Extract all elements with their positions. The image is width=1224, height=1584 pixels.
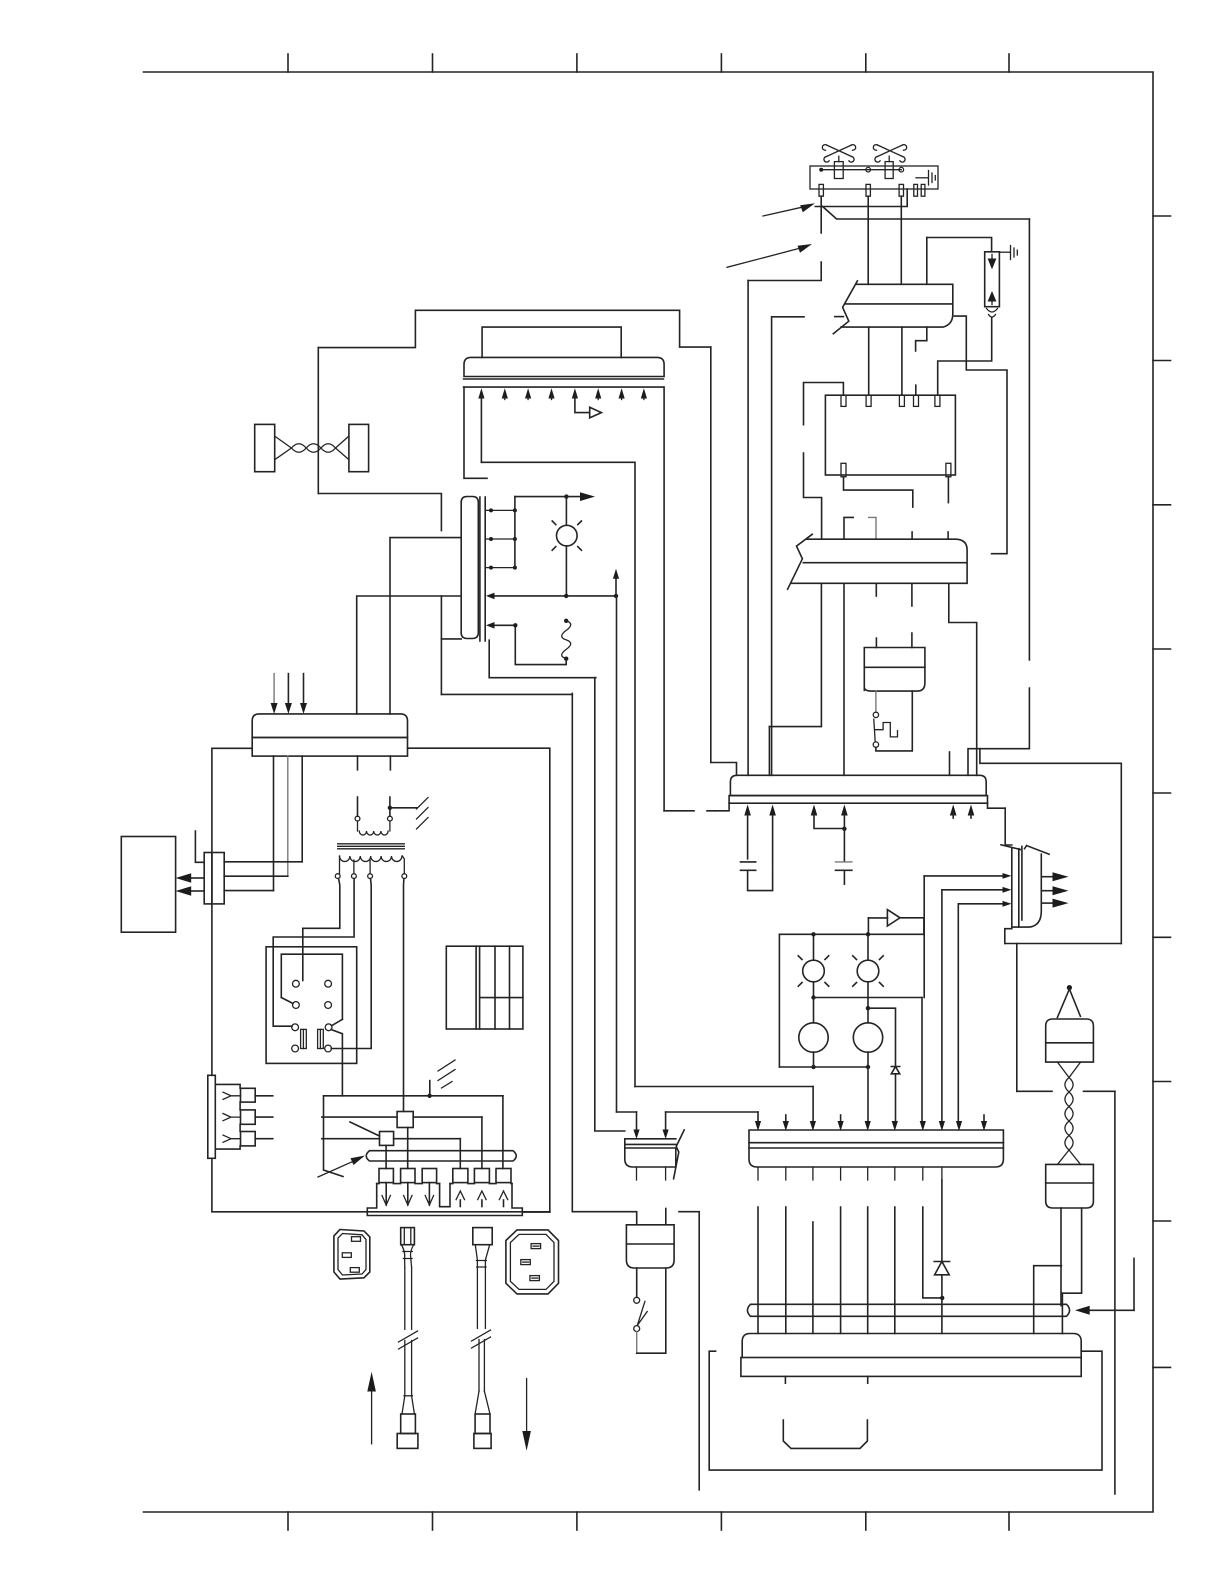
ground chassis in TB1	[929, 171, 936, 186]
resistor coil RC1	[564, 619, 568, 623]
capacitor C2	[836, 861, 852, 863]
wire FC1 bottom jog	[916, 327, 927, 351]
wire strip row4 out	[357, 596, 462, 714]
frame tick top 4	[720, 54, 722, 72]
pin P5 of TB1	[921, 184, 925, 196]
wire stub into FC2 right	[947, 532, 949, 539]
fuser connector CN-F2	[1046, 1164, 1094, 1208]
C13 pin mid	[521, 1260, 531, 1265]
wire bus5 into CN-L	[812, 1087, 814, 1122]
wire through twisted pair down	[317, 348, 319, 494]
arrow up into panel 8	[641, 388, 647, 398]
callout arrow A1	[763, 207, 802, 216]
harness feed arrow	[1090, 1309, 1134, 1311]
wire CN-L out c	[812, 1222, 814, 1334]
W1 cable upper	[405, 1268, 412, 1330]
wire FC2 stub	[875, 583, 877, 596]
frame tick right 1	[1153, 215, 1171, 217]
wire sec2 to relay	[273, 879, 354, 1027]
wire to buffer U2	[575, 396, 590, 413]
wire strip row2 out	[390, 538, 461, 714]
wire strip bottom to bus3	[489, 640, 596, 678]
arrow down into CN-L h	[939, 1121, 945, 1131]
wire feed to connector CN-H left	[747, 281, 749, 776]
rail row1 right drop	[502, 1096, 504, 1169]
rail row3 right drop	[459, 1139, 461, 1169]
wire FC2 bottom to CN-H	[843, 583, 845, 775]
arrow up into CN-H b	[769, 805, 776, 816]
frame tick top 2	[432, 54, 434, 72]
C13 pin bottom	[530, 1276, 540, 1281]
connector CN-H lower strip	[729, 796, 987, 804]
wire FC1 right to lower bus	[954, 316, 1007, 554]
arrow left into box 1	[190, 877, 204, 879]
wire stub CN-H top right	[949, 752, 951, 775]
capacitor C1 top wire	[747, 813, 749, 859]
wire to bus2	[441, 693, 572, 695]
transformer T1 primary coil	[358, 821, 390, 835]
door switch contact a	[873, 712, 878, 717]
connector CN-S small	[625, 1139, 676, 1167]
lamp mid rail	[814, 997, 923, 999]
CN-L bottom pin stubs	[758, 1167, 942, 1180]
wire CN-L out e	[867, 1207, 869, 1334]
strip pin row5 with arrow	[493, 624, 515, 626]
switch blade	[637, 1301, 647, 1325]
wire panel left edge	[464, 387, 487, 478]
arrow down into CN-L c	[810, 1121, 816, 1131]
frame tick right 7	[1153, 1081, 1171, 1083]
pin U1 top4	[914, 395, 919, 406]
arrow up into CN-H e	[950, 805, 957, 816]
W1 bottom plug	[401, 1414, 416, 1434]
ground chassis G2	[438, 1060, 455, 1088]
wire terminal block to enclosure edge	[522, 1211, 550, 1213]
drawing frame border	[144, 72, 1154, 1512]
relay contact c8	[325, 1045, 332, 1052]
connector CN-B small	[204, 853, 224, 904]
wire diode branch	[868, 1008, 896, 1065]
rail row2 right drop	[481, 1117, 483, 1168]
node dot rail1	[811, 932, 815, 936]
twisted pair plug left	[255, 424, 275, 471]
arrow left into box 2	[190, 890, 204, 892]
transformer T1 secondary coil	[340, 856, 402, 862]
node dot bottom1	[811, 1065, 815, 1069]
relay contact c5	[292, 1024, 299, 1031]
out arrow d2	[407, 1183, 409, 1205]
wire D2 to PSU	[941, 1275, 943, 1334]
node dot mid rail	[811, 995, 815, 999]
wire L into panel top	[482, 327, 621, 357]
PSU enclosure left edge	[212, 748, 252, 1075]
W1 cable lower	[405, 1341, 412, 1396]
wire TB1 pin2 down to flat cable	[867, 196, 869, 284]
wire breaker feed	[927, 238, 992, 252]
wire CN-L out g jog	[923, 1207, 942, 1298]
frame tick right 5	[1153, 792, 1171, 794]
W2 cable lower	[479, 1340, 484, 1392]
secondary terminal 3	[368, 874, 373, 879]
wire sec1 to relay	[303, 879, 340, 981]
node dot	[842, 827, 846, 831]
arrow down into CN-L e	[865, 1121, 871, 1131]
wire CN-R feed1 down	[923, 876, 925, 998]
frame tick right 4	[1153, 648, 1171, 650]
secondary terminal 4	[402, 874, 407, 879]
node open circle TB1 right	[899, 167, 904, 172]
relay contact c1	[293, 980, 300, 987]
connector CN-R body	[1001, 845, 1049, 927]
wire stub into door switch	[875, 638, 877, 647]
wire sec3 to relay	[331, 879, 371, 1049]
ground chassis at CB1	[999, 251, 1010, 253]
callout arrow A2	[727, 248, 800, 267]
wire from operation panel step	[710, 347, 712, 762]
wire bus3 to CN-S	[595, 678, 625, 1131]
chevron pin 1	[223, 1092, 241, 1099]
arrow up into panel 2	[502, 388, 508, 398]
C14 pin mid	[342, 1253, 351, 1258]
relay inner diagonal right	[332, 1019, 343, 1025]
arrow down into CN-L b	[785, 1115, 787, 1121]
frame tick right 3	[1153, 504, 1171, 506]
pin U1 top5	[935, 395, 940, 406]
wire c jog	[814, 813, 844, 829]
switch contact bottom	[634, 1326, 640, 1332]
node open circle TB1 mid	[866, 167, 871, 172]
arrow up into CN-H c	[811, 805, 818, 816]
operation panel connector bar	[464, 357, 664, 376]
wire stub near strip bottom	[440, 596, 442, 694]
pin P4 of TB1	[914, 184, 918, 196]
pin U1 top2	[866, 395, 871, 406]
arrow down into CN-S b	[665, 1112, 667, 1129]
wire diode D2 upper	[941, 1180, 943, 1262]
terminal square t4	[453, 1169, 468, 1183]
arrow down into CN-L i	[956, 1121, 962, 1131]
arrow up into panel 1	[478, 388, 484, 398]
wire down from CN-R rail	[1016, 944, 1018, 1092]
wire lamp drop	[565, 497, 567, 526]
PSU lower bracket	[783, 1420, 867, 1448]
buffer triangle U2	[590, 407, 602, 418]
inlet fuse square c	[241, 1132, 256, 1146]
arrow up into panel 4	[548, 388, 554, 398]
relay board K1 outer	[266, 947, 357, 1064]
heater H2	[853, 1023, 882, 1052]
wire to chassis ground	[390, 807, 417, 809]
out arrow d1	[385, 1183, 387, 1205]
strip pin row3	[486, 567, 515, 569]
lamp group top rail	[779, 933, 924, 935]
PCB board U1	[825, 395, 955, 475]
wire D1 down to CN-L	[895, 1074, 897, 1121]
twisted pair wires	[275, 436, 349, 460]
wire sec4 down	[403, 879, 405, 1112]
terminal block notch	[440, 1184, 450, 1207]
pin P3 of TB1	[899, 184, 903, 196]
AC outlet C13 outer	[506, 1230, 559, 1294]
wire U1 bottom pin2	[947, 477, 949, 503]
wire FC2 bottom left down	[769, 583, 821, 726]
main switch SW1 box	[626, 1225, 674, 1268]
power cord W2 top plug	[473, 1228, 492, 1245]
AC inlet C14 outer	[334, 1230, 370, 1280]
terminal block outline	[367, 1184, 522, 1216]
capacitor C2 stub	[843, 870, 845, 884]
arrow into CN-R pin2	[942, 889, 1003, 891]
frame tick bottom 2	[432, 1512, 434, 1530]
wire bus4 down	[616, 596, 618, 1112]
wire stub f	[970, 813, 972, 818]
up arrow on bus4	[615, 577, 617, 596]
CN-H right tab wire	[988, 803, 1006, 808]
transformer T1 core	[338, 844, 405, 849]
frame tick bottom 1	[287, 1512, 289, 1530]
inlet stub row1	[255, 1095, 273, 1097]
breaker bottom coupling arcs	[987, 309, 998, 313]
arrow down into CN-L d	[840, 1115, 842, 1121]
strip pin row2	[486, 538, 515, 540]
W2 neck	[475, 1245, 489, 1268]
wire right column long drop	[1114, 1091, 1116, 1494]
arrow down into CN-A 3	[303, 674, 305, 705]
arrow up into CN-H a	[744, 805, 751, 816]
wire lamp column1	[813, 934, 815, 1067]
terminal square t6	[496, 1169, 511, 1183]
capacitor C1	[741, 862, 756, 870]
relay contact c7	[292, 1045, 299, 1052]
wire CN-R bottom rail	[1005, 943, 1122, 945]
CN-H left tab wire	[715, 803, 729, 811]
ground chassis G1	[417, 798, 429, 830]
out arrow d3	[428, 1183, 430, 1205]
relay coil comp1	[301, 1029, 307, 1048]
wire bus1 top	[408, 748, 550, 1212]
wire U3 input	[868, 917, 887, 919]
wire CN-H tab to connector CN-R	[1005, 808, 1012, 845]
in caret u3	[499, 1191, 507, 1200]
wire TB1 second feed left	[772, 317, 804, 776]
relay contact c3	[293, 1002, 300, 1009]
AC rail row2	[322, 1116, 482, 1118]
frame tick bottom 6	[1008, 1512, 1010, 1530]
wire panel feed 1	[480, 396, 482, 462]
node dot bottom2	[866, 1065, 870, 1069]
wire F2 bottom down	[407, 1128, 409, 1169]
circuit breaker CB1	[985, 252, 1000, 307]
frame tick top 6	[1008, 54, 1010, 72]
wire CN-B pin1 dangle	[195, 831, 204, 862]
wire CN-L out f	[894, 1207, 896, 1334]
relay board inner outline	[281, 954, 342, 1019]
connector CN-L long bar	[749, 1130, 1003, 1167]
arrow down into CN-L f	[892, 1121, 898, 1131]
harness bar HN2	[366, 1151, 516, 1161]
door switch DS1 box	[864, 648, 925, 692]
exposure lamp LA2	[853, 956, 883, 986]
frame tick top 5	[865, 54, 867, 72]
wire stub strip bottom left	[441, 638, 461, 640]
wire panel right edge to CN-H tab	[664, 810, 715, 812]
wire CN-L out b	[785, 1207, 787, 1334]
wire FC1 bottom pin B	[901, 327, 903, 395]
door switch blade	[874, 719, 875, 742]
dangling jog wire	[679, 1212, 699, 1490]
harness bar HN1	[747, 1304, 1069, 1316]
wire TB1 pin3 down to flat cable	[900, 196, 902, 284]
terminal square t3	[422, 1169, 436, 1183]
wire jog to strip	[318, 494, 441, 531]
wire crossing to right column	[1017, 1090, 1115, 1092]
lamp group left rail	[778, 934, 780, 1067]
breaker up arrow	[991, 296, 993, 305]
wire TB1 lower loop	[815, 189, 907, 207]
W1 neck	[402, 1245, 414, 1268]
arrow down into CN-A 1	[273, 674, 275, 705]
inlet fuse square b	[241, 1110, 256, 1124]
fuse square F1	[380, 1132, 394, 1146]
wire to chassis ground in TB1	[916, 177, 928, 179]
rail row1 left drop	[324, 1096, 344, 1177]
wire CN-F2 left down to harness	[1060, 1208, 1062, 1306]
CN-S bottom stubs	[637, 1167, 666, 1180]
node dot primary	[388, 806, 392, 810]
wire panel right edge	[663, 387, 665, 811]
wire stub to PCB pin4	[915, 385, 917, 395]
connector hook symbol left	[844, 517, 853, 539]
primary terminal b	[388, 816, 393, 821]
wire FC1 bottom pin A	[868, 327, 870, 395]
W2 break symbol	[472, 1330, 491, 1348]
PSU enclosure bottom	[212, 1158, 550, 1212]
inlet stub row2	[255, 1116, 273, 1118]
wire branch to breaker rail	[926, 238, 928, 285]
wire FC2 to door switch	[911, 583, 913, 647]
relay contact c6	[325, 1024, 332, 1031]
relay contact c4	[325, 1002, 332, 1009]
wire CN-S b to switch	[665, 1209, 667, 1225]
AC outlet C13 inner	[510, 1234, 554, 1289]
break slash	[674, 1130, 685, 1179]
relay inner diagonal left	[281, 998, 293, 1004]
thermostat TS1 body	[834, 162, 843, 179]
wire U1 top pin1 route left	[804, 383, 844, 540]
flat cable FC1	[833, 281, 953, 334]
W1 bottom flare	[402, 1396, 414, 1414]
arrow down into CN-S a	[636, 1112, 638, 1129]
thermostat TS2 body	[885, 162, 893, 179]
wire FC2 right down jog	[949, 583, 977, 775]
wire CN-R feed3 down to CN-L arrow	[957, 904, 959, 1121]
twisted pair plug right	[349, 424, 369, 471]
wire stub into FC2 mid-right	[911, 532, 913, 539]
arrow down into CN-L a	[757, 1112, 759, 1121]
wire harness feed drop	[1133, 1258, 1135, 1310]
thermostat TS2 element symbol	[873, 145, 906, 162]
secondary terminal 2	[352, 874, 357, 879]
wire U step over panel	[318, 310, 711, 347]
terminal square t2	[401, 1169, 415, 1183]
wire CN-B pin2 right	[224, 875, 288, 877]
switch bottom loop	[636, 1332, 638, 1354]
wire PSU stub right	[709, 1351, 1102, 1470]
lamp group bottom rail	[779, 1066, 868, 1068]
PSU pin stub1	[784, 1376, 786, 1383]
PSU unit box	[742, 1334, 1081, 1358]
frame tick right 6	[1153, 936, 1171, 938]
frame tick right 9	[1153, 1366, 1171, 1368]
wire CN-H top left entry	[712, 763, 737, 776]
in caret u2	[478, 1191, 486, 1200]
pin P2 of TB1	[866, 184, 870, 196]
C14 pin bottom	[350, 1268, 359, 1273]
node dot rail2	[866, 932, 870, 936]
grid box PD1	[446, 946, 523, 1029]
wire F1 bottom down	[385, 1145, 387, 1168]
fuser thermostat box TB1	[810, 166, 938, 189]
primary terminal a	[355, 816, 360, 821]
frame tick right 8	[1153, 1220, 1171, 1222]
wire lamp to row4	[565, 546, 567, 596]
CN-A bottom wires left	[273, 756, 275, 891]
diode D1	[891, 1067, 899, 1074]
W2 bottom plug	[475, 1414, 490, 1434]
frame tick bottom 5	[865, 1512, 867, 1530]
wire CN-L out d	[840, 1207, 842, 1334]
door switch contact wire	[875, 691, 877, 712]
power cord W1 top plug	[401, 1228, 415, 1245]
W2 bottom flare	[475, 1391, 490, 1414]
capacitor C1 bottom loop	[748, 816, 773, 891]
fuse square F2	[397, 1112, 413, 1128]
chevron pin 2	[223, 1114, 241, 1121]
wire into PSU top right	[1061, 1293, 1063, 1333]
wire ground to rail	[429, 1081, 431, 1096]
AC inlet bracket CN-I	[208, 1075, 216, 1158]
AC inlet C14 inner	[338, 1234, 366, 1276]
strip pin row4 with arrow	[493, 595, 616, 597]
arrow up into CN-H d	[841, 805, 848, 816]
wire lamp col2 down to CN-L	[867, 1067, 869, 1121]
wire CN-F2 right down jog	[1062, 1208, 1082, 1293]
arrow down into CN-L g	[920, 1121, 926, 1131]
wire U3 input drop	[867, 918, 869, 934]
arrow up into panel 7	[619, 388, 625, 398]
fuser connector CN-F1	[1046, 1019, 1094, 1062]
connector hook symbol right	[869, 517, 876, 539]
rail above CN-L	[666, 1111, 758, 1113]
diagonal into F1	[350, 1122, 380, 1136]
pin U1 top1	[841, 395, 846, 406]
wire CN-L out a	[757, 1207, 759, 1334]
secondary terminal 1	[335, 874, 340, 879]
in caret u1	[456, 1191, 464, 1200]
arrow right output	[566, 496, 581, 498]
pin U1 bottom1	[841, 463, 846, 477]
arrow out CN-R pin1	[1041, 876, 1053, 878]
node dot rail ground	[427, 1094, 431, 1098]
pin U1 bottom2	[946, 463, 951, 477]
wire TB1 pin1 down and left	[748, 196, 821, 280]
wire bus5 feed	[481, 462, 635, 1086]
wire mid rail down to CN-L	[921, 998, 923, 1122]
direction arrow up	[371, 1390, 373, 1444]
frame tick top 3	[576, 54, 578, 72]
diode D2	[934, 1262, 949, 1275]
arrow down into CN-A 2	[287, 674, 289, 705]
